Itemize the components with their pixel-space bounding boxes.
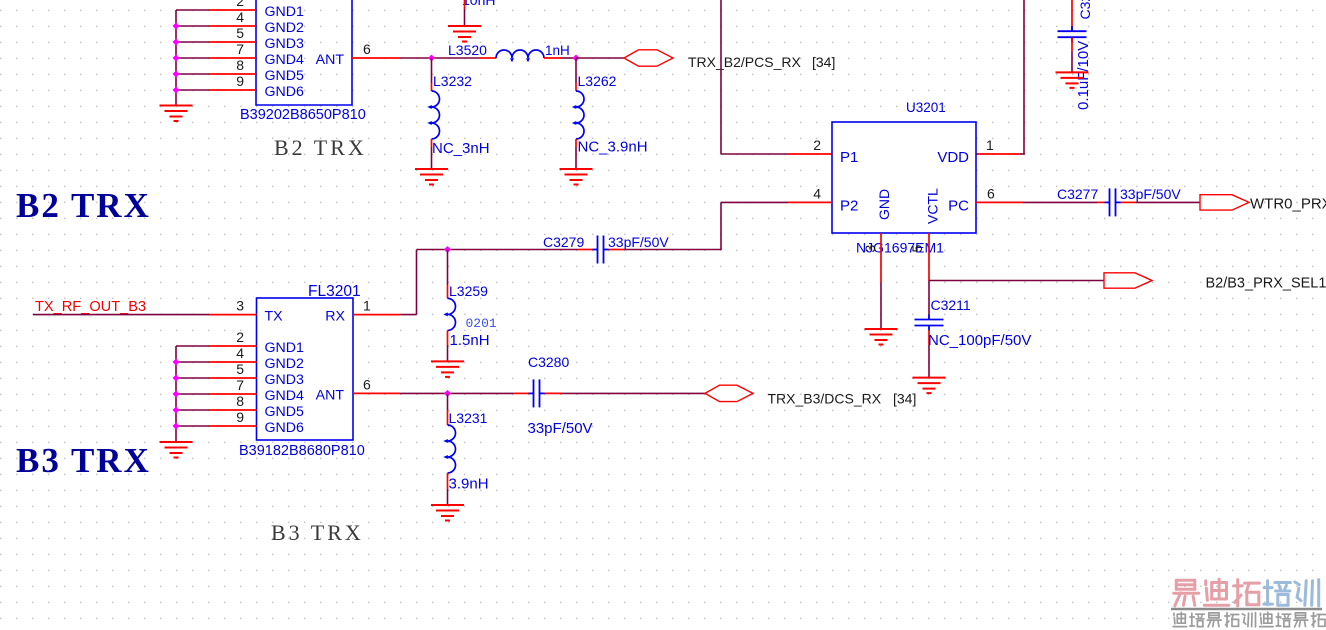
svg-text:FL3201: FL3201: [308, 283, 361, 300]
ground symbol under L3232: [415, 169, 448, 185]
svg-text:6: 6: [363, 41, 371, 57]
vertical wire from U3201 VDD to top of page: [1023, 0, 1025, 154]
svg-text:P2: P2: [840, 198, 858, 215]
junction dots on B2 ground bus: [173, 23, 180, 30]
shunt inductor L3259 1.5nH: [447, 250, 449, 286]
ground symbol for B2 filter GND bus: [160, 106, 193, 122]
svg-text:5: 5: [236, 25, 244, 41]
svg-text:GND4: GND4: [265, 388, 305, 404]
svg-text:6: 6: [987, 186, 995, 202]
svg-text:4: 4: [236, 345, 244, 361]
svg-text:U3201: U3201: [906, 100, 946, 115]
svg-text:1nH: 1nH: [545, 43, 570, 58]
wire VCTL node to B2/B3_PRX_SEL1 connector: [929, 280, 1104, 282]
svg-text:PC: PC: [948, 198, 969, 215]
FL3201 ANT pin stub (pin 6): [353, 392, 400, 394]
svg-text:4: 4: [813, 186, 821, 202]
wire P2 of U3201 to C3279 net: [721, 201, 788, 203]
svg-text:B3 TRX: B3 TRX: [16, 441, 151, 480]
logo slogan row 2 (gray characters): [1173, 612, 1325, 627]
svg-text:8: 8: [236, 57, 244, 73]
svg-text:GND2: GND2: [265, 356, 305, 372]
svg-text:GND1: GND1: [265, 340, 305, 356]
ground symbol under 10nH leg: [448, 26, 481, 42]
svg-text:9: 9: [236, 73, 244, 89]
svg-text:2: 2: [236, 0, 244, 9]
ground symbol under C3211: [913, 378, 946, 394]
svg-text:GND5: GND5: [265, 68, 305, 84]
svg-text:TRX_B2/PCS_RX: TRX_B2/PCS_RX: [688, 54, 801, 70]
U3201 pin names P1 VDD P2 PC: [840, 149, 969, 215]
ground symbol for U3201 GND: [865, 329, 898, 345]
wire PC pin to C3277: [1023, 201, 1097, 203]
svg-text:1.5nH: 1.5nH: [450, 332, 490, 349]
svg-text:C3254: C3254: [1077, 0, 1093, 20]
IC U3201 NJG1697EM1 (RF switch) box: [832, 122, 976, 233]
svg-text:GND3: GND3: [265, 372, 305, 388]
capacitor C3280 33pF/50V (series): [513, 392, 529, 394]
wire C3279 to U3201 P2 riser: [624, 249, 721, 251]
svg-text:RX: RX: [325, 309, 345, 325]
svg-text:[34]: [34]: [893, 391, 916, 407]
shunt inductor L3232 NC_3nH: [431, 58, 433, 83]
svg-text:L3520: L3520: [448, 42, 487, 58]
svg-text:4: 4: [236, 9, 244, 25]
svg-text:ANT: ANT: [316, 387, 345, 403]
svg-text:B2 TRX: B2 TRX: [274, 135, 367, 160]
shunt inductor L3262 NC_3.9nH: [575, 58, 577, 83]
junction node after L3520: [573, 55, 580, 62]
bypass capacitor C32xx 0.1uF/10V (cut at top edge): [1071, 0, 1073, 31]
B2 ground bus vertical wire: [175, 10, 177, 106]
wire VCTL node down to C3211: [928, 281, 930, 316]
wire L3520 to off-page connector: [576, 57, 624, 59]
off-page connector B2/B3_PRX_SEL1 (arrow): [1104, 273, 1152, 288]
svg-text:GND: GND: [876, 189, 892, 220]
svg-text:B2 TRX: B2 TRX: [16, 186, 151, 225]
svg-text:7: 7: [236, 377, 244, 393]
svg-text:VDD: VDD: [937, 149, 969, 166]
svg-text:GND4: GND4: [265, 52, 305, 68]
wires from B3 GND bus to FL3201 pins: [176, 346, 209, 426]
svg-text:NC_100pF/50V: NC_100pF/50V: [928, 332, 1031, 349]
svg-text:5: 5: [236, 361, 244, 377]
svg-text:6: 6: [363, 376, 371, 392]
svg-text:3: 3: [862, 245, 878, 253]
junction node at L3232 tap: [428, 55, 435, 62]
off-page connector WTR0_PRX (arrow): [1200, 195, 1249, 210]
svg-text:7: 7: [236, 41, 244, 57]
svg-text:1: 1: [363, 298, 371, 314]
svg-text:33pF/50V: 33pF/50V: [608, 234, 669, 250]
logo text row 1 (pink+blue brand characters): [1174, 579, 1319, 606]
svg-text:8: 8: [236, 393, 244, 409]
shunt inductor L3231 3.9nH: [447, 393, 449, 410]
U3201 VCTL pin stub (pin 5): [928, 233, 930, 281]
ground symbol under bypass cap: [1056, 72, 1089, 88]
ground symbol under L3262: [560, 169, 593, 185]
svg-text:GND6: GND6: [265, 84, 305, 100]
capacitor C3277 33pF/50V (series): [1097, 201, 1105, 203]
svg-text:33pF/50V: 33pF/50V: [528, 420, 593, 437]
svg-text:3.9nH: 3.9nH: [449, 476, 489, 493]
wire ANT to L3520: [400, 57, 480, 59]
svg-text:0201: 0201: [466, 316, 497, 331]
svg-text:GND3: GND3: [265, 36, 305, 52]
B2 filter pin names GND1-GND6 and ANT: [265, 4, 345, 100]
svg-text:GND6: GND6: [265, 420, 305, 436]
svg-text:WTR0_PRX: WTR0_PRX: [1250, 196, 1326, 213]
svg-text:1: 1: [986, 137, 994, 153]
wire TX_RF_OUT_B3 to FL3201 TX pin: [33, 314, 209, 316]
wire C3277 to WTR0_PRX connector: [1136, 201, 1200, 203]
svg-text:L3232: L3232: [433, 73, 472, 89]
svg-text:L3262: L3262: [578, 73, 617, 89]
svg-text:0.1uF/10V: 0.1uF/10V: [1075, 41, 1092, 110]
capacitor C3211 NC_100pF/50V (shunt): [915, 315, 944, 331]
FL3201 TX pin stub (pin 3): [209, 314, 257, 316]
logo underline: [1171, 608, 1322, 610]
svg-text:C3279: C3279: [543, 234, 584, 250]
wire C3280 to off-page connector: [561, 392, 705, 394]
svg-text:NC_3.9nH: NC_3.9nH: [578, 139, 648, 156]
FL3201 pin names TX RX GND1-GND6 ANT: [265, 309, 346, 436]
ground symbol under L3259: [431, 361, 464, 377]
svg-text:9: 9: [236, 409, 244, 425]
svg-text:3: 3: [236, 298, 244, 314]
SAW filter FL3201 B39182B8680P810 box: [257, 298, 354, 440]
ground symbol for FL3201 GND bus: [160, 442, 193, 458]
svg-text:C3280: C3280: [528, 354, 569, 370]
junction dots on B3 ground bus: [173, 359, 180, 366]
SAW filter B2 (top, box cut at top edge) B39202B8650P810: [256, 0, 352, 105]
U3201 GND pin stub (pin 3): [880, 233, 882, 283]
svg-text:TX_RF_OUT_B3: TX_RF_OUT_B3: [35, 299, 146, 315]
svg-text:B2/B3_PRX_SEL1: B2/B3_PRX_SEL1: [1206, 276, 1326, 292]
svg-text:TRX_B3/DCS_RX: TRX_B3/DCS_RX: [768, 391, 882, 407]
svg-text:L3231: L3231: [449, 410, 488, 426]
B2 ANT pin stub (pin 6): [352, 57, 400, 59]
svg-text:C3277: C3277: [1057, 186, 1098, 202]
VDD pin stub wire: [976, 153, 1020, 155]
wire segments from GND bus to B2 filter pins: [176, 10, 209, 90]
off-page connector TRX_B2/PCS_RX (hexagon): [624, 50, 673, 66]
svg-text:5: 5: [909, 245, 925, 253]
FL3201 pin numbers 3 2 4 5 7 8 9: [236, 298, 244, 425]
inductor L3520 1nH (series): [480, 57, 496, 59]
capacitor C3279 33pF/50V (series): [577, 249, 593, 251]
svg-text:2: 2: [813, 137, 821, 153]
svg-text:L3259: L3259: [449, 283, 488, 299]
svg-text:C3211: C3211: [931, 297, 971, 313]
U3201 PC pin stub (pin 6): [976, 201, 1023, 203]
FL3201 left GND pin stubs: [209, 346, 257, 426]
svg-text:[34]: [34]: [812, 54, 835, 70]
off-page connector TRX_B3/DCS_RX (hexagon): [705, 385, 753, 401]
svg-text:P1: P1: [840, 149, 858, 166]
junction node at L3259 tap: [444, 246, 451, 253]
svg-text:NC_3nH: NC_3nH: [432, 140, 490, 157]
svg-text:B39182B8680P810: B39182B8680P810: [239, 443, 365, 459]
wire GND pin to ground: [880, 283, 882, 329]
svg-text:GND2: GND2: [265, 20, 305, 36]
svg-text:GND1: GND1: [265, 4, 305, 20]
wire into U3201 P1: [721, 153, 788, 155]
svg-text:2: 2: [236, 329, 244, 345]
svg-text:VCTL: VCTL: [925, 188, 941, 224]
U3201 pin numbers 2 4 1 6: [813, 137, 995, 202]
B3 ground bus vertical wire: [175, 346, 177, 442]
B2 filter pin numbers 2 4 5 7 8 9: [236, 0, 244, 89]
vertical wire from top of page to U3201 pin P1: [720, 0, 722, 154]
svg-text:ANT: ANT: [316, 52, 345, 68]
junction node at L3231 tap: [444, 390, 451, 397]
svg-text:10nH: 10nH: [462, 0, 495, 8]
svg-text:B39202B8650P810: B39202B8650P810: [240, 107, 366, 123]
wire ANT to C3280: [400, 392, 513, 394]
svg-text:33pF/50V: 33pF/50V: [1120, 186, 1181, 202]
svg-text:TX: TX: [265, 309, 284, 325]
wire RX up to C3279 row: [400, 314, 416, 316]
B2 filter left pin stubs (pins 2,4,5,7,8,9): [209, 10, 256, 90]
ground symbol under L3231: [431, 505, 464, 521]
FL3201 RX pin stub (pin 1): [353, 314, 400, 316]
svg-text:B3 TRX: B3 TRX: [271, 520, 364, 545]
svg-text:GND5: GND5: [265, 404, 305, 420]
